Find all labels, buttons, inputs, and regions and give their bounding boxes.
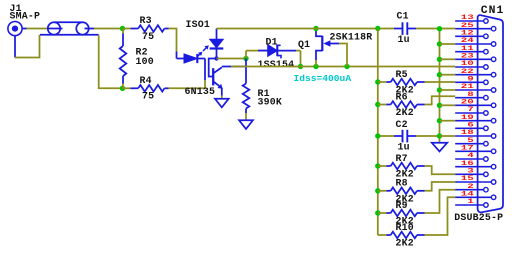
node ground bus pin 19 <box>437 118 442 123</box>
CN1 pin 10 <box>455 65 488 70</box>
node left bus to R6 <box>375 102 380 107</box>
wire D1 right riser <box>300 51 302 67</box>
wire coax shield down <box>99 35 122 88</box>
CN1 pin 19 <box>455 118 496 123</box>
node ground bus pin 18 <box>437 133 442 138</box>
CN1 pin 25 <box>455 26 496 31</box>
svg-text:ISO1: ISO1 <box>186 19 211 30</box>
capacitor C1 <box>394 22 416 35</box>
svg-text:17: 17 <box>461 144 474 151</box>
resistor R3 <box>123 25 169 32</box>
node ground bus pin 20 <box>437 103 442 108</box>
wire R9 to pin 2 <box>425 190 456 213</box>
node left bus to R7 <box>375 163 380 168</box>
wire ground bus to pin 20 <box>440 104 456 106</box>
svg-text:5: 5 <box>467 137 474 144</box>
svg-text:2SK118R: 2SK118R <box>330 32 373 43</box>
svg-text:1u: 1u <box>398 34 410 45</box>
diode D1 <box>246 45 301 59</box>
CN1 pin 4 <box>455 157 488 162</box>
svg-text:1: 1 <box>467 198 474 205</box>
svg-text:R8: R8 <box>396 178 408 189</box>
CN1 pin 23 <box>455 57 496 62</box>
svg-text:23: 23 <box>461 52 474 59</box>
CN1 pin 6 <box>455 126 488 131</box>
CN1 pin 9 <box>455 80 488 85</box>
svg-text:22: 22 <box>461 68 474 75</box>
wire R3 to opto LED <box>169 29 177 52</box>
svg-text:8: 8 <box>467 91 474 98</box>
svg-text:14: 14 <box>461 190 475 197</box>
node ground bus pin 22 <box>437 72 442 77</box>
opto photodiode <box>210 29 224 59</box>
CN1 pin 7 <box>455 111 488 116</box>
CN1 pin 22 <box>455 72 496 77</box>
CN1 pin 18 <box>455 134 496 139</box>
svg-text:21: 21 <box>461 83 474 90</box>
node B junction <box>120 86 125 91</box>
node ground bus pin 21 <box>437 87 442 92</box>
wire opto emitter to ground <box>221 96 223 99</box>
svg-text:R5: R5 <box>396 69 408 80</box>
node Q1 drain junction <box>313 26 318 31</box>
svg-text:DSUB25-P: DSUB25-P <box>454 212 503 223</box>
connector CN1 body <box>478 15 503 212</box>
wire Q1 gate to output <box>339 44 347 67</box>
svg-text:16: 16 <box>461 160 474 167</box>
wire opto collector output <box>222 66 246 68</box>
svg-text:2K2: 2K2 <box>396 238 414 249</box>
node ground bus pin 24 <box>437 41 442 46</box>
node D1 left junction <box>243 56 248 61</box>
wire ground bus to pin 19 <box>440 120 456 122</box>
wire R5 to pin 9 <box>425 81 456 83</box>
node opto base junction <box>214 56 218 60</box>
svg-text:100: 100 <box>136 56 154 67</box>
resistor R10 <box>378 232 425 239</box>
svg-text:7: 7 <box>467 106 474 113</box>
wire R8 jog to pin <box>425 182 456 191</box>
wire R4 to opto LED cathode <box>169 87 206 89</box>
svg-text:1SS154: 1SS154 <box>258 59 295 70</box>
wire ground bus to pin 23 <box>440 58 456 60</box>
CN1 pin 16 <box>455 164 496 169</box>
svg-text:R9: R9 <box>396 200 408 211</box>
node left bus to R8 <box>375 188 380 193</box>
svg-text:18: 18 <box>461 129 474 136</box>
svg-text:2K2: 2K2 <box>396 107 414 118</box>
CN1 pin 13 <box>455 19 488 24</box>
CN1 pin 5 <box>455 141 488 146</box>
svg-text:R4: R4 <box>140 75 152 86</box>
resistor R8 <box>378 188 425 195</box>
node Q1 gate junction <box>344 64 349 69</box>
resistor R7 <box>378 163 425 170</box>
resistor R5 <box>378 79 425 86</box>
svg-text:75: 75 <box>142 31 154 42</box>
CN1 pin 11 <box>455 49 488 54</box>
svg-text:C1: C1 <box>397 10 409 21</box>
svg-text:25: 25 <box>461 22 474 29</box>
resistor R9 <box>378 210 425 217</box>
wire ground bus to pin 22 <box>440 74 456 76</box>
wire ground bus to pin 21 <box>440 89 456 91</box>
node left bus to C2 <box>375 133 380 138</box>
CN1 pin 2 <box>455 187 488 192</box>
svg-text:10: 10 <box>461 60 474 67</box>
svg-text:1u: 1u <box>398 141 410 152</box>
resistor R2 <box>120 29 127 89</box>
svg-text:12: 12 <box>461 29 474 36</box>
svg-text:11: 11 <box>461 45 474 52</box>
ground bus symbol <box>432 143 447 152</box>
wire R6 jog to pin <box>425 96 456 104</box>
svg-text:6N135: 6N135 <box>185 86 216 97</box>
svg-text:19: 19 <box>461 114 474 121</box>
svg-text:24: 24 <box>461 37 475 44</box>
ground opto emitter <box>215 99 229 108</box>
wire coax to node A <box>94 28 122 30</box>
capacitor C2 <box>378 130 440 143</box>
svg-text:C2: C2 <box>396 119 408 130</box>
CN1 pin 21 <box>455 88 496 93</box>
svg-text:SMA-P: SMA-P <box>10 11 41 22</box>
opto-coupler U ISO1 LED <box>177 52 206 89</box>
svg-text:R3: R3 <box>140 15 152 26</box>
CN1 pin 12 <box>455 34 488 39</box>
wire J1 to coax <box>27 28 48 30</box>
svg-text:4: 4 <box>467 152 474 159</box>
wire D1 left riser <box>245 51 247 59</box>
resistor R6 <box>378 101 425 108</box>
coax cable symbol <box>40 22 99 34</box>
svg-text:R6: R6 <box>396 91 408 102</box>
node ground bus pin 23 <box>437 57 442 62</box>
svg-text:Idss=400uA: Idss=400uA <box>294 73 352 84</box>
resistor R1 <box>243 59 250 121</box>
svg-text:9: 9 <box>467 75 474 82</box>
ground R1 <box>239 120 253 129</box>
wire R10 to pin 14 <box>425 197 456 235</box>
wire ground bus to pin 18 <box>440 135 456 137</box>
node left bus to R5 <box>375 79 380 84</box>
CN1 pin 15 <box>455 180 496 185</box>
CN1 pin 1 <box>455 203 488 208</box>
node A junction <box>120 26 125 31</box>
opto transistor <box>209 59 223 96</box>
CN1 pin 14 <box>455 195 496 200</box>
node ground bus pin 25 <box>437 26 442 31</box>
svg-text:D1: D1 <box>266 36 278 47</box>
wire left bus <box>377 29 379 236</box>
opto light arrows <box>197 45 209 57</box>
wire ground bus <box>439 29 441 143</box>
node left bus to R9 <box>375 210 380 215</box>
wire output net <box>231 66 455 68</box>
CN1 pin 20 <box>455 103 496 108</box>
wire ground bus to pin 24 <box>440 43 456 45</box>
node D1 right junction <box>298 64 303 69</box>
node Q1 source junction <box>313 64 318 69</box>
svg-text:R10: R10 <box>396 222 414 233</box>
svg-text:Q1: Q1 <box>298 39 310 50</box>
CN1 pin 3 <box>455 172 488 177</box>
wire R7 jog to pin 3 <box>425 166 456 174</box>
CN1 pin 24 <box>455 42 496 47</box>
svg-text:R7: R7 <box>396 153 408 164</box>
svg-text:75: 75 <box>142 91 154 102</box>
node left bus top junction <box>375 26 380 31</box>
wire opto base node to D1/R1 <box>217 58 247 60</box>
wire J1 shield return <box>15 35 40 58</box>
connector J1 (SMA-P) <box>8 22 27 58</box>
svg-text:20: 20 <box>461 98 474 105</box>
svg-text:2: 2 <box>467 183 474 190</box>
CN1 pin 17 <box>455 149 496 154</box>
svg-text:6: 6 <box>467 121 474 128</box>
svg-text:13: 13 <box>461 14 474 21</box>
wire C1 to ground bus <box>416 28 455 30</box>
svg-text:390K: 390K <box>258 96 283 107</box>
wire top net <box>217 28 395 30</box>
CN1 pin 8 <box>455 95 488 100</box>
svg-text:15: 15 <box>461 175 474 182</box>
transistor Q1 JFET <box>316 29 339 67</box>
resistor R4 <box>123 85 169 92</box>
svg-text:3: 3 <box>467 167 474 174</box>
